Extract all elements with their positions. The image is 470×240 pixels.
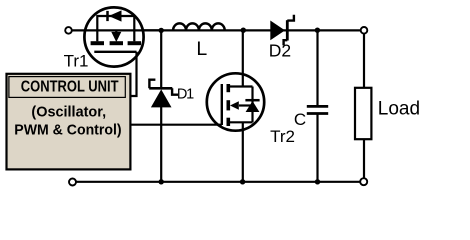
svg-text:(Oscillator,: (Oscillator, — [31, 104, 106, 121]
svg-text:D1: D1 — [177, 86, 194, 102]
svg-text:C: C — [294, 110, 306, 129]
svg-text:CONTROL UNIT: CONTROL UNIT — [21, 79, 119, 96]
svg-text:D2: D2 — [269, 41, 291, 61]
svg-text:PWM & Control): PWM & Control) — [14, 122, 121, 139]
svg-text:Load: Load — [378, 98, 420, 119]
svg-text:Tr2: Tr2 — [270, 127, 295, 146]
svg-text:Tr1: Tr1 — [64, 51, 89, 70]
svg-text:L: L — [196, 38, 207, 60]
